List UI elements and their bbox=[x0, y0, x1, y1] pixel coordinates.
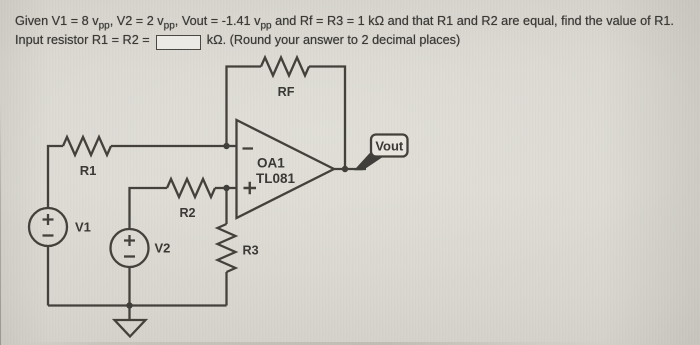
wire output bbox=[334, 168, 366, 170]
svg-text:Vout: Vout bbox=[375, 139, 404, 154]
wire V1 bottom bbox=[47, 246, 49, 306]
wire R3 bottom bbox=[225, 272, 227, 306]
wire inverting input stub bbox=[227, 145, 237, 147]
svg-text:OA1: OA1 bbox=[257, 156, 285, 171]
wire R1 to inverting node bbox=[111, 145, 227, 147]
voltage source V1 bbox=[29, 208, 91, 246]
wire feedback left riser bbox=[227, 67, 262, 147]
op-amp OA1 TL081 bbox=[237, 120, 335, 218]
wire noninverting input stub bbox=[227, 187, 237, 189]
svg-text:R2: R2 bbox=[179, 206, 195, 220]
svg-text:V2: V2 bbox=[155, 241, 171, 256]
wire feedback top right bbox=[309, 67, 345, 170]
node output junction bbox=[342, 166, 348, 172]
resistor RF bbox=[261, 58, 309, 100]
node noninverting input bbox=[223, 185, 229, 191]
svg-text:V1: V1 bbox=[75, 220, 91, 235]
wire bottom rail bbox=[48, 304, 227, 306]
svg-text:R3: R3 bbox=[243, 244, 259, 258]
wire R3 top bbox=[225, 188, 227, 224]
wire V2 bottom bbox=[128, 267, 130, 306]
resistor R3 bbox=[218, 224, 259, 272]
svg-text:RF: RF bbox=[278, 85, 295, 99]
resistor R2 bbox=[167, 179, 215, 220]
voltage source V2 bbox=[111, 229, 171, 267]
problem text line 2 with answer input box bbox=[15, 33, 460, 50]
wire V2 top riser to R2 bbox=[130, 188, 168, 229]
node inverting input bbox=[223, 143, 229, 149]
svg-text:R1: R1 bbox=[80, 163, 97, 178]
problem text line 1 bbox=[15, 14, 674, 32]
resistor R1 bbox=[63, 137, 111, 178]
svg-text:TL081: TL081 bbox=[256, 171, 296, 186]
label Vout callout bbox=[354, 135, 408, 171]
ground bbox=[115, 306, 146, 337]
wire R2 to noninverting node bbox=[215, 187, 227, 189]
node ground junction bbox=[126, 302, 132, 308]
wire V1 top to R1 bbox=[48, 146, 63, 208]
